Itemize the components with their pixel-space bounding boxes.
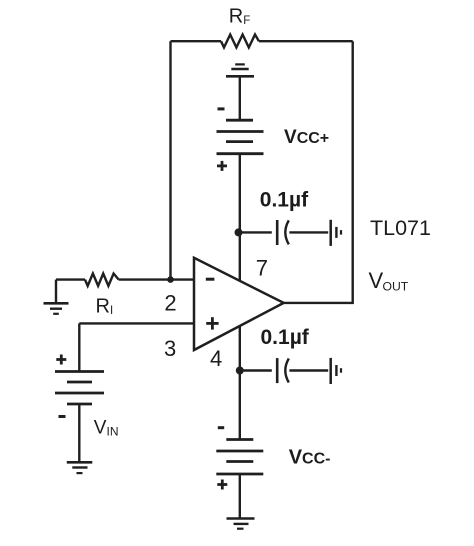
ground G5 (sideways, right of C2) (331, 358, 341, 384)
node: pin7 / bypass cap junction (235, 228, 243, 236)
wire: VIN battery to ground (78, 404, 80, 462)
svg-text:0.1µf: 0.1µf (260, 189, 309, 212)
label: plus at non-inverting input (206, 317, 218, 329)
label: minus of VIN battery (59, 415, 66, 418)
wire: VCC+ down to op-amp pin 7 (239, 154, 241, 281)
svg-text:VCC-: VCC- (289, 447, 331, 469)
label: plus of VCC+ battery (217, 161, 227, 171)
wire: VCC- battery to ground (239, 474, 241, 518)
battery B1 VCC+ (217, 120, 264, 154)
svg-text:0.1µf: 0.1µf (261, 326, 310, 349)
ground G6 (below VCC-) (227, 519, 255, 529)
svg-text:IN: IN (107, 425, 119, 439)
resistor RI zigzag (85, 274, 119, 286)
wire: top feedback horizontal (left of RF) (171, 40, 222, 42)
capacitor C2 0.1uf (bottom bypass) (277, 358, 289, 383)
wire: top feedback horizontal (right of RF) (259, 40, 353, 42)
svg-text:TL071: TL071 (370, 216, 431, 240)
svg-text:7: 7 (256, 255, 268, 280)
wire: down to VIN battery (78, 323, 80, 371)
battery B3 VCC- (216, 440, 263, 475)
ground G1 (flipped, above VCC+ battery) (226, 64, 254, 120)
ground G2 (sideways, right of C1) (331, 220, 341, 246)
ground G4 (below VIN) (67, 462, 93, 473)
svg-text:VCC+: VCC+ (284, 127, 329, 148)
capacitor C1 0.1uf (top bypass) (277, 220, 289, 245)
op-amp U1 triangle (194, 258, 284, 350)
wire: op-amp pin 4 down to VCC- battery (239, 326, 241, 439)
wire: capacitor C2 to ground (289, 369, 328, 371)
wire: non-inverting input horizontal (79, 322, 194, 324)
wire: RI to inverting input of op-amp (119, 278, 194, 280)
ground G3 (left of RI) (44, 280, 69, 314)
node: pin4 / bypass cap junction (236, 367, 244, 375)
label: plus of VCC- battery (217, 480, 227, 490)
label: minus at inverting input (206, 278, 215, 281)
svg-text:2: 2 (164, 290, 176, 315)
svg-text:3: 3 (164, 336, 176, 361)
wire: left feedback vertical (169, 41, 171, 279)
label: minus of VCC+ battery (218, 107, 225, 110)
svg-text:V: V (369, 268, 384, 293)
node: feedback / RI junction (167, 276, 174, 283)
svg-text:4: 4 (210, 346, 222, 371)
label: minus of VCC- battery (218, 426, 224, 429)
wire: to capacitor C2 (240, 369, 272, 371)
battery B2 VIN (55, 372, 104, 405)
wire: right vertical from top to output (284, 41, 353, 303)
svg-text:OUT: OUT (383, 280, 409, 294)
svg-text:V: V (94, 418, 107, 439)
wire: to capacitor C1 (240, 231, 272, 233)
wire: capacitor C1 to ground (289, 231, 328, 233)
wire: ground to resistor RI (56, 278, 85, 280)
resistor RF zigzag (221, 35, 259, 48)
label: plus of VIN battery (56, 355, 66, 365)
